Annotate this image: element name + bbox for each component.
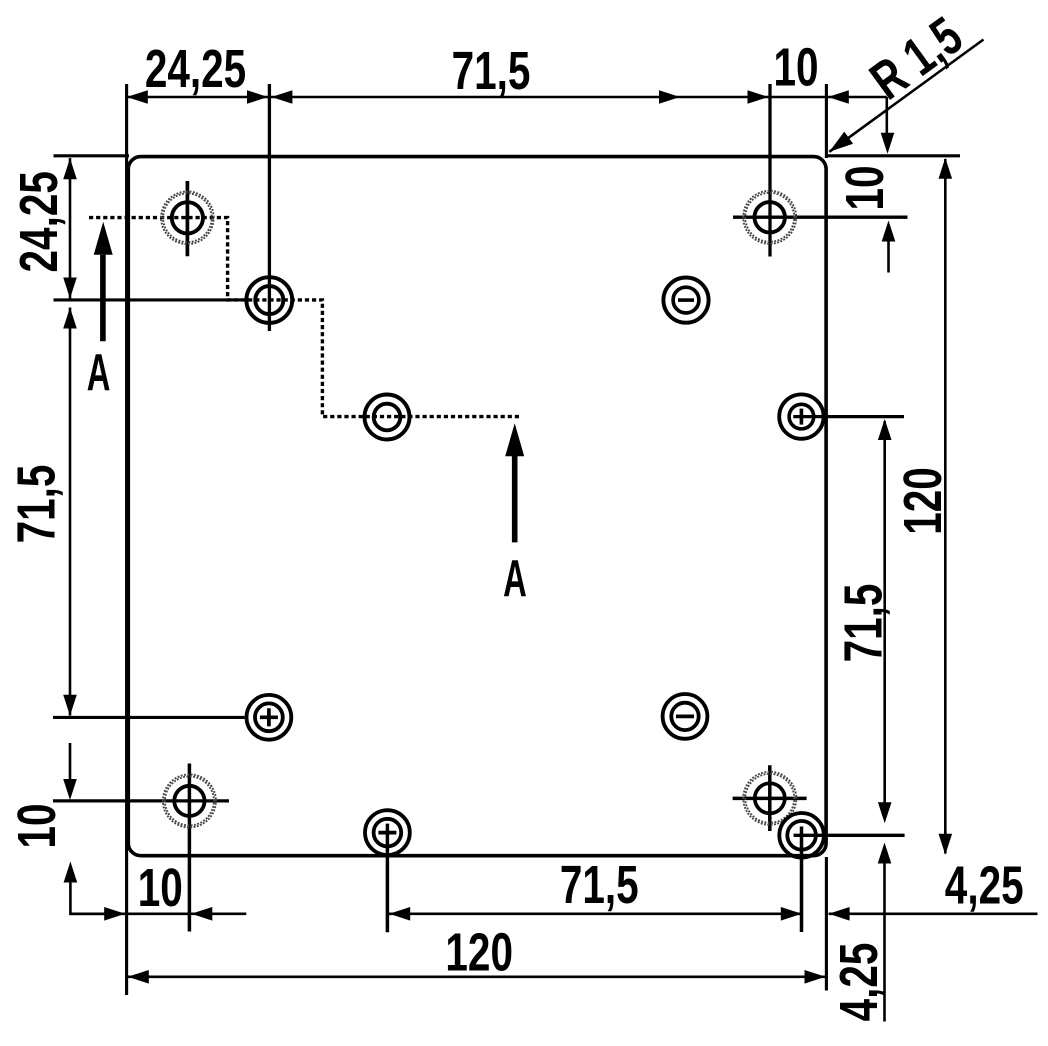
- svg-text:4,25: 4,25: [829, 943, 889, 1022]
- svg-text:71,5: 71,5: [452, 41, 531, 101]
- hole H9 bottom-left circle: [174, 786, 204, 816]
- arrow up top end right 120: [939, 158, 953, 179]
- hole H6 row extension line right: [793, 415, 904, 418]
- hole H1 knurled ring: [161, 192, 213, 244]
- hole H6 plus mark vertical: [800, 409, 804, 425]
- hole H5 minus mark: [678, 298, 694, 302]
- svg-text:10: 10: [138, 858, 183, 918]
- hole H7 plus mark: [260, 715, 278, 719]
- arrow left end bottom 120: [128, 970, 149, 984]
- tail shaft below arrow right 4.25: [883, 864, 886, 1022]
- arrow up below hole H12 row right 4.25: [878, 843, 892, 864]
- bottom dim line segment left 10: [70, 912, 246, 915]
- hole H12 vertical centerline down: [800, 827, 804, 933]
- hole H12 inner circle: [787, 821, 816, 850]
- hole H1 top-left circle: [172, 202, 203, 233]
- arrow right onto left edge ext bottom 10: [104, 907, 125, 921]
- svg-text:71,5: 71,5: [7, 465, 67, 544]
- hole H12 row extension line right: [794, 834, 905, 837]
- tail below arrow up right 10: [887, 242, 890, 273]
- hole H7 inner circle: [255, 703, 283, 731]
- arrow left onto plate right edge ext 4.25: [829, 907, 850, 921]
- hole H9 knurled ring: [163, 775, 215, 827]
- left dim 10 upper outside arrow shaft: [69, 743, 72, 779]
- left dim line 71.5 vertical: [69, 308, 72, 716]
- arrow left onto hole H9 column bottom 10: [191, 907, 212, 921]
- arrow left end bottom 71.5: [389, 907, 410, 921]
- arrow left end 71.5 top: [271, 90, 292, 104]
- section arrow A middle: [505, 423, 524, 456]
- plate top edge extension right: [827, 154, 960, 157]
- left dim 10 lower outside arrow: [64, 862, 78, 883]
- hole H2 inner circle: [255, 286, 283, 314]
- svg-text:71,5: 71,5: [834, 584, 894, 663]
- row 110 extension line through hole H9: [53, 799, 229, 802]
- hole H11 bottom-right circle: [755, 783, 785, 813]
- arrow up onto hole H4 row from below: [882, 221, 896, 242]
- svg-text:A: A: [87, 345, 111, 402]
- left dim 10 lower tail bracket: [70, 883, 104, 914]
- hole H12 outer circle: [779, 813, 824, 858]
- arrow down bottom end right 71.5: [878, 802, 892, 823]
- hole H8 minus mark: [676, 715, 694, 719]
- hole H5 outer circle: [663, 278, 708, 323]
- stepped section line A-A dotted: [89, 218, 522, 417]
- hole H11 vertical centerline: [768, 765, 772, 831]
- hole H10 outer circle: [365, 810, 410, 855]
- hole H4 row extension line right: [733, 216, 908, 219]
- leader arrowhead R1.5: [829, 132, 853, 152]
- hole H4 knurled ring: [744, 191, 796, 243]
- section arrow A left: [94, 222, 113, 255]
- arrow down bottom end left 71.5: [63, 695, 77, 716]
- svg-text:4,25: 4,25: [945, 856, 1024, 916]
- hole H4 top-right circle: [755, 202, 785, 232]
- hole H11 knurled ring: [744, 772, 796, 824]
- hole H8 outer circle: [663, 694, 708, 739]
- section arrow A left shaft: [100, 255, 106, 341]
- hole H2 outer circle: [246, 277, 292, 323]
- bottom dim line 120: [127, 975, 827, 978]
- bottom dim line segment 71.5: [389, 912, 802, 915]
- svg-text:A: A: [503, 551, 527, 608]
- left dim line 24.25 vertical: [69, 158, 72, 299]
- arrow down onto row 110 left: [63, 779, 77, 800]
- right dim line 71.5: [883, 421, 886, 803]
- svg-text:120: 120: [893, 467, 953, 535]
- arrow up top end left 71.5: [63, 308, 77, 329]
- arrow up top end left 24.25: [63, 158, 77, 179]
- hole H10 vertical centerline down: [386, 824, 390, 933]
- svg-text:10: 10: [7, 803, 67, 848]
- hole H1 vertical centerline: [186, 181, 190, 256]
- hole H6 inner circle: [789, 404, 814, 429]
- arrow right end bottom 120: [805, 970, 826, 984]
- arrow outside left of 10 top: [748, 90, 769, 104]
- hole H7 outer circle: [247, 695, 292, 740]
- leader line R1.5 to top right corner: [829, 40, 983, 152]
- row 95.75 extension line left to hole H7: [53, 716, 245, 719]
- hole H5 inner circle: [673, 287, 699, 313]
- svg-text:120: 120: [445, 923, 513, 983]
- top dimension bracket corner down to plate top right: [885, 97, 888, 133]
- arrow right end bottom 71.5: [781, 907, 802, 921]
- svg-text:24,25: 24,25: [9, 171, 69, 272]
- svg-text:71,5: 71,5: [560, 855, 639, 915]
- arrow outside right of 10 top: [828, 90, 849, 104]
- arrow down bottom end right 120: [939, 834, 953, 855]
- hole H3 outer circle: [365, 395, 410, 440]
- bottom dim line segment 4.25 tail: [829, 912, 1038, 915]
- plate top edge extension left: [54, 154, 130, 157]
- svg-text:24,25: 24,25: [145, 39, 246, 99]
- hole H8 inner circle: [671, 703, 698, 730]
- row 24.25 extension line left: [54, 298, 247, 301]
- extension line column 24.25 through hole H2: [268, 84, 271, 331]
- hole H6 outer circle: [779, 394, 823, 438]
- right dim line 120: [944, 159, 947, 854]
- hole H11 horizontal centerline: [733, 797, 807, 801]
- extension line column 110 through hole H4: [768, 84, 771, 257]
- extension line right edge lower: [825, 857, 828, 991]
- svg-text:10: 10: [835, 165, 895, 210]
- arrow right end 24.25: [247, 90, 268, 104]
- section arrow A middle shaft: [512, 455, 518, 542]
- arrow down onto plate top edge right: [881, 133, 895, 154]
- extension line left edge column x=126.6: [125, 84, 128, 995]
- top dimension line y=97: [127, 96, 887, 99]
- arrow left end 24.25: [127, 90, 148, 104]
- hole H10 plus mark horizontal: [378, 831, 396, 835]
- hole H10 inner circle: [374, 819, 402, 847]
- hole H3 inner circle: [374, 404, 401, 431]
- svg-text:10: 10: [773, 38, 818, 98]
- arrow up top end right 71.5: [878, 419, 892, 440]
- arrow right end 71.5 top at column 95.75: [659, 90, 680, 104]
- plate outline 120x120 rounded corners: [128, 157, 826, 856]
- extension line right edge upper: [825, 84, 828, 158]
- hole H9 vertical centerline: [188, 764, 192, 932]
- arrow down bottom end left 24.25: [63, 278, 77, 299]
